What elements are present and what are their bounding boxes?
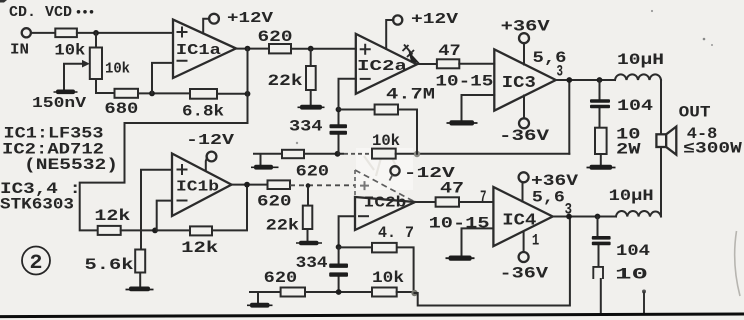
-36V supply IC4 <box>500 232 549 283</box>
wire L1 to speaker <box>660 80 662 134</box>
node IC2a inverting <box>336 107 342 113</box>
node input junction <box>93 30 99 36</box>
wire R18 to open node <box>397 291 415 293</box>
svg-text:104: 104 <box>617 97 653 115</box>
svg-text:OUT: OUT <box>679 104 711 122</box>
wire R1 to IC1a + input <box>77 32 173 34</box>
svg-text:10-15: 10-15 <box>435 73 493 91</box>
svg-text:620: 620 <box>258 28 293 46</box>
svg-text:10k: 10k <box>105 61 130 78</box>
wire IC4 pin10-15 to ground <box>462 228 494 255</box>
pen scribble at IC2a apex <box>403 45 421 64</box>
svg-text:IC1a: IC1a <box>176 43 221 59</box>
resistor R6 12k input <box>94 207 130 235</box>
node IC3 output feedback <box>566 77 572 83</box>
node 22k bottom junction <box>306 183 311 188</box>
node IC1b output <box>244 182 250 188</box>
capacitor C4 104 bottom <box>592 217 650 267</box>
wire R7 up to IC1b output <box>212 185 247 231</box>
wire IC1a output <box>236 48 269 50</box>
svg-text:2W: 2W <box>616 141 641 159</box>
+12V supply IC2a <box>386 11 458 49</box>
wire R3 to feedback corner <box>217 93 248 95</box>
svg-text:+12V: +12V <box>227 10 273 27</box>
node feedback junction <box>245 91 251 97</box>
op-amp IC2b dashed top edge <box>355 170 415 230</box>
power amp IC3 <box>494 49 566 111</box>
ground below 22k <box>298 105 325 110</box>
power amp IC4 <box>480 187 572 250</box>
svg-text:12k: 12k <box>94 207 130 225</box>
svg-text:-36V: -36V <box>500 265 549 283</box>
speaker OUT <box>656 104 742 217</box>
svg-text:7: 7 <box>480 188 487 206</box>
wire node to IC1b - input <box>157 201 172 231</box>
scan bottom rule <box>0 314 744 317</box>
svg-text:620: 620 <box>264 269 298 287</box>
svg-text:10μH: 10μH <box>617 51 664 69</box>
svg-text:1: 1 <box>532 232 539 250</box>
wire feedback loop around IC4 <box>415 217 570 306</box>
svg-text:IC2a: IC2a <box>357 58 407 75</box>
node IC1a output <box>245 46 251 52</box>
wire IC3 pin10-15 to ground <box>462 95 495 120</box>
svg-text:2: 2 <box>30 252 43 275</box>
op-amp IC2a <box>356 34 417 94</box>
svg-text:620: 620 <box>257 192 292 210</box>
svg-text:22k: 22k <box>266 217 300 235</box>
wire IN to R1 <box>31 32 55 34</box>
svg-text:+36V: +36V <box>531 172 579 190</box>
svg-text:680: 680 <box>104 100 138 118</box>
wire R17 to cap node bottom <box>305 291 372 293</box>
resistor R8 5.6k <box>85 250 146 287</box>
node cap junction top row <box>335 151 341 157</box>
node IC3 output filter <box>597 77 603 83</box>
+36V supply IC4 <box>519 172 579 202</box>
resistor R3 6.8k <box>182 89 224 121</box>
svg-text:10μH: 10μH <box>609 187 654 205</box>
node open feedback top <box>414 151 420 157</box>
resistor R17 620 reference bottom <box>264 269 305 297</box>
input terminal IN <box>10 28 31 58</box>
resistor R13 4.7M <box>339 86 436 154</box>
node A inverting input node <box>149 91 155 97</box>
resistor R14 47 <box>437 42 461 68</box>
svg-text:6.8k: 6.8k <box>182 103 224 121</box>
wire pot bottom to R2 <box>96 92 115 94</box>
svg-text:22k: 22k <box>268 72 303 90</box>
wire IC1b output <box>232 184 268 186</box>
potentiometer RP 10k <box>64 33 130 93</box>
wire dashed watermark row153 <box>344 153 372 155</box>
node IC4 output feedback <box>566 214 572 220</box>
svg-text:-12V: -12V <box>186 132 234 149</box>
wire node A to IC1a - input <box>152 63 173 94</box>
ground below wiper <box>54 90 78 95</box>
node IC4 output filter <box>595 214 601 220</box>
wire output feedback vertical <box>247 49 249 94</box>
wire R4 to IC2a + input <box>291 48 356 50</box>
svg-text:3: 3 <box>557 63 564 81</box>
wire R12 to feedback node <box>396 153 570 155</box>
resistor R20 10 bottom partial <box>593 266 648 315</box>
inductor L2 10uH <box>609 187 661 217</box>
ground below R15 <box>587 165 616 170</box>
svg-text:12k: 12k <box>181 239 218 257</box>
svg-text:47: 47 <box>438 42 461 60</box>
node 22k junction <box>308 46 314 52</box>
svg-text:10k: 10k <box>54 42 85 60</box>
scan page curl arc <box>735 231 740 296</box>
svg-text:IC3: IC3 <box>502 74 536 93</box>
wire stage1 to stage2 zigzag <box>80 94 248 231</box>
inductor L1 10uH <box>615 51 664 80</box>
svg-text:IC2b: IC2b <box>364 195 407 211</box>
capacitor C1 334 top <box>289 110 347 154</box>
resistor R11 620 reference top <box>282 150 329 181</box>
svg-text:334: 334 <box>289 118 323 136</box>
node IC1b inverting <box>152 228 158 234</box>
svg-text:CD. VCD: CD. VCD <box>9 4 72 21</box>
resistor R15 10 2W <box>595 125 641 165</box>
scan corner blob <box>0 0 7 3</box>
resistor R16 4.7 feedback <box>339 224 414 292</box>
svg-text:≤300W: ≤300W <box>683 140 742 158</box>
svg-text:620: 620 <box>296 162 330 180</box>
scan specks <box>296 10 713 144</box>
resistor R19 47 bottom <box>436 180 464 207</box>
resistor R4 620 <box>258 28 293 53</box>
resistor R10 22k bottom <box>266 186 313 241</box>
svg-text:10: 10 <box>615 266 648 284</box>
capacitor C3 334 bottom <box>296 247 348 292</box>
node open feedback bottom <box>411 290 417 296</box>
op-amp IC1a <box>173 20 236 78</box>
wire feedback from IC3 output <box>568 80 570 154</box>
wire R11 to cap node <box>304 153 343 155</box>
wire R9 to IC2b + input dashed (faded watermark area) <box>290 184 355 186</box>
ground below 22k bottom <box>296 241 322 245</box>
op-amp IC1b <box>172 154 232 217</box>
-36V supply IC3 <box>499 96 550 146</box>
wire IC2b output to R19 <box>415 201 436 203</box>
ground reference top row <box>251 154 282 170</box>
svg-text:4. 7: 4. 7 <box>378 224 414 242</box>
wire IC1b + input <box>141 170 172 250</box>
wire IC4 output <box>553 216 616 218</box>
node IC2b inverting <box>336 244 342 250</box>
svg-text:+36V: +36V <box>501 18 551 36</box>
svg-text:-36V: -36V <box>499 127 550 145</box>
svg-text:10k: 10k <box>372 132 400 150</box>
resistor R1 10k <box>54 29 85 60</box>
wire R6 to IC1b - node <box>121 229 190 231</box>
resistor R5 22k <box>268 49 316 105</box>
ground below 5.6k <box>126 287 154 292</box>
faded watermark patch <box>356 148 413 190</box>
+36V supply IC3 <box>501 18 551 65</box>
svg-text:104: 104 <box>616 242 650 260</box>
svg-text:47: 47 <box>440 180 464 198</box>
svg-text:10k: 10k <box>372 269 404 287</box>
ground IC4 pins <box>446 256 475 261</box>
wire IC2b - input <box>339 216 355 247</box>
resistor R2 680 <box>104 89 138 118</box>
node cap junction bottom row <box>336 289 342 295</box>
svg-text:STK6303: STK6303 <box>0 196 74 214</box>
svg-text:IC1b: IC1b <box>176 180 219 196</box>
wire IC3 output <box>556 79 615 81</box>
resistor R12 10k top feedback <box>372 132 400 159</box>
svg-text:334: 334 <box>296 254 328 272</box>
svg-text:IC4: IC4 <box>502 212 536 231</box>
ground reference bottom row <box>247 292 281 308</box>
svg-text:(NE5532): (NE5532) <box>24 156 118 174</box>
resistor R18 10k bottom feedback <box>372 269 404 297</box>
wire IC2a - input <box>339 79 356 110</box>
resistor R9 620 series <box>257 180 292 210</box>
ground IC3 pins <box>447 120 478 125</box>
svg-text:+12V: +12V <box>411 11 458 28</box>
+12V supply IC1a <box>203 10 273 33</box>
svg-text:10-15: 10-15 <box>429 215 490 233</box>
circled figure number 2 <box>22 247 50 276</box>
-12V supply IC1b <box>186 132 234 171</box>
svg-text:IN: IN <box>10 42 29 59</box>
svg-text:5,6: 5,6 <box>532 189 565 207</box>
svg-text:150nV: 150nV <box>32 95 86 112</box>
capacitor C2 104 top <box>590 80 653 128</box>
label CD.VCD source <box>9 4 93 21</box>
wire IC2a output to R14 <box>417 63 437 65</box>
svg-text:4.7M: 4.7M <box>386 86 435 104</box>
wire R14 to IC3 input <box>459 63 494 65</box>
wire stub artifact <box>642 290 646 315</box>
svg-text:5.6k: 5.6k <box>85 256 134 274</box>
wire R19 to IC4 input <box>459 201 493 203</box>
resistor R7 12k feedback <box>181 226 218 257</box>
wire R2 to node A <box>138 92 190 94</box>
-12V supply IC2b <box>390 165 455 182</box>
